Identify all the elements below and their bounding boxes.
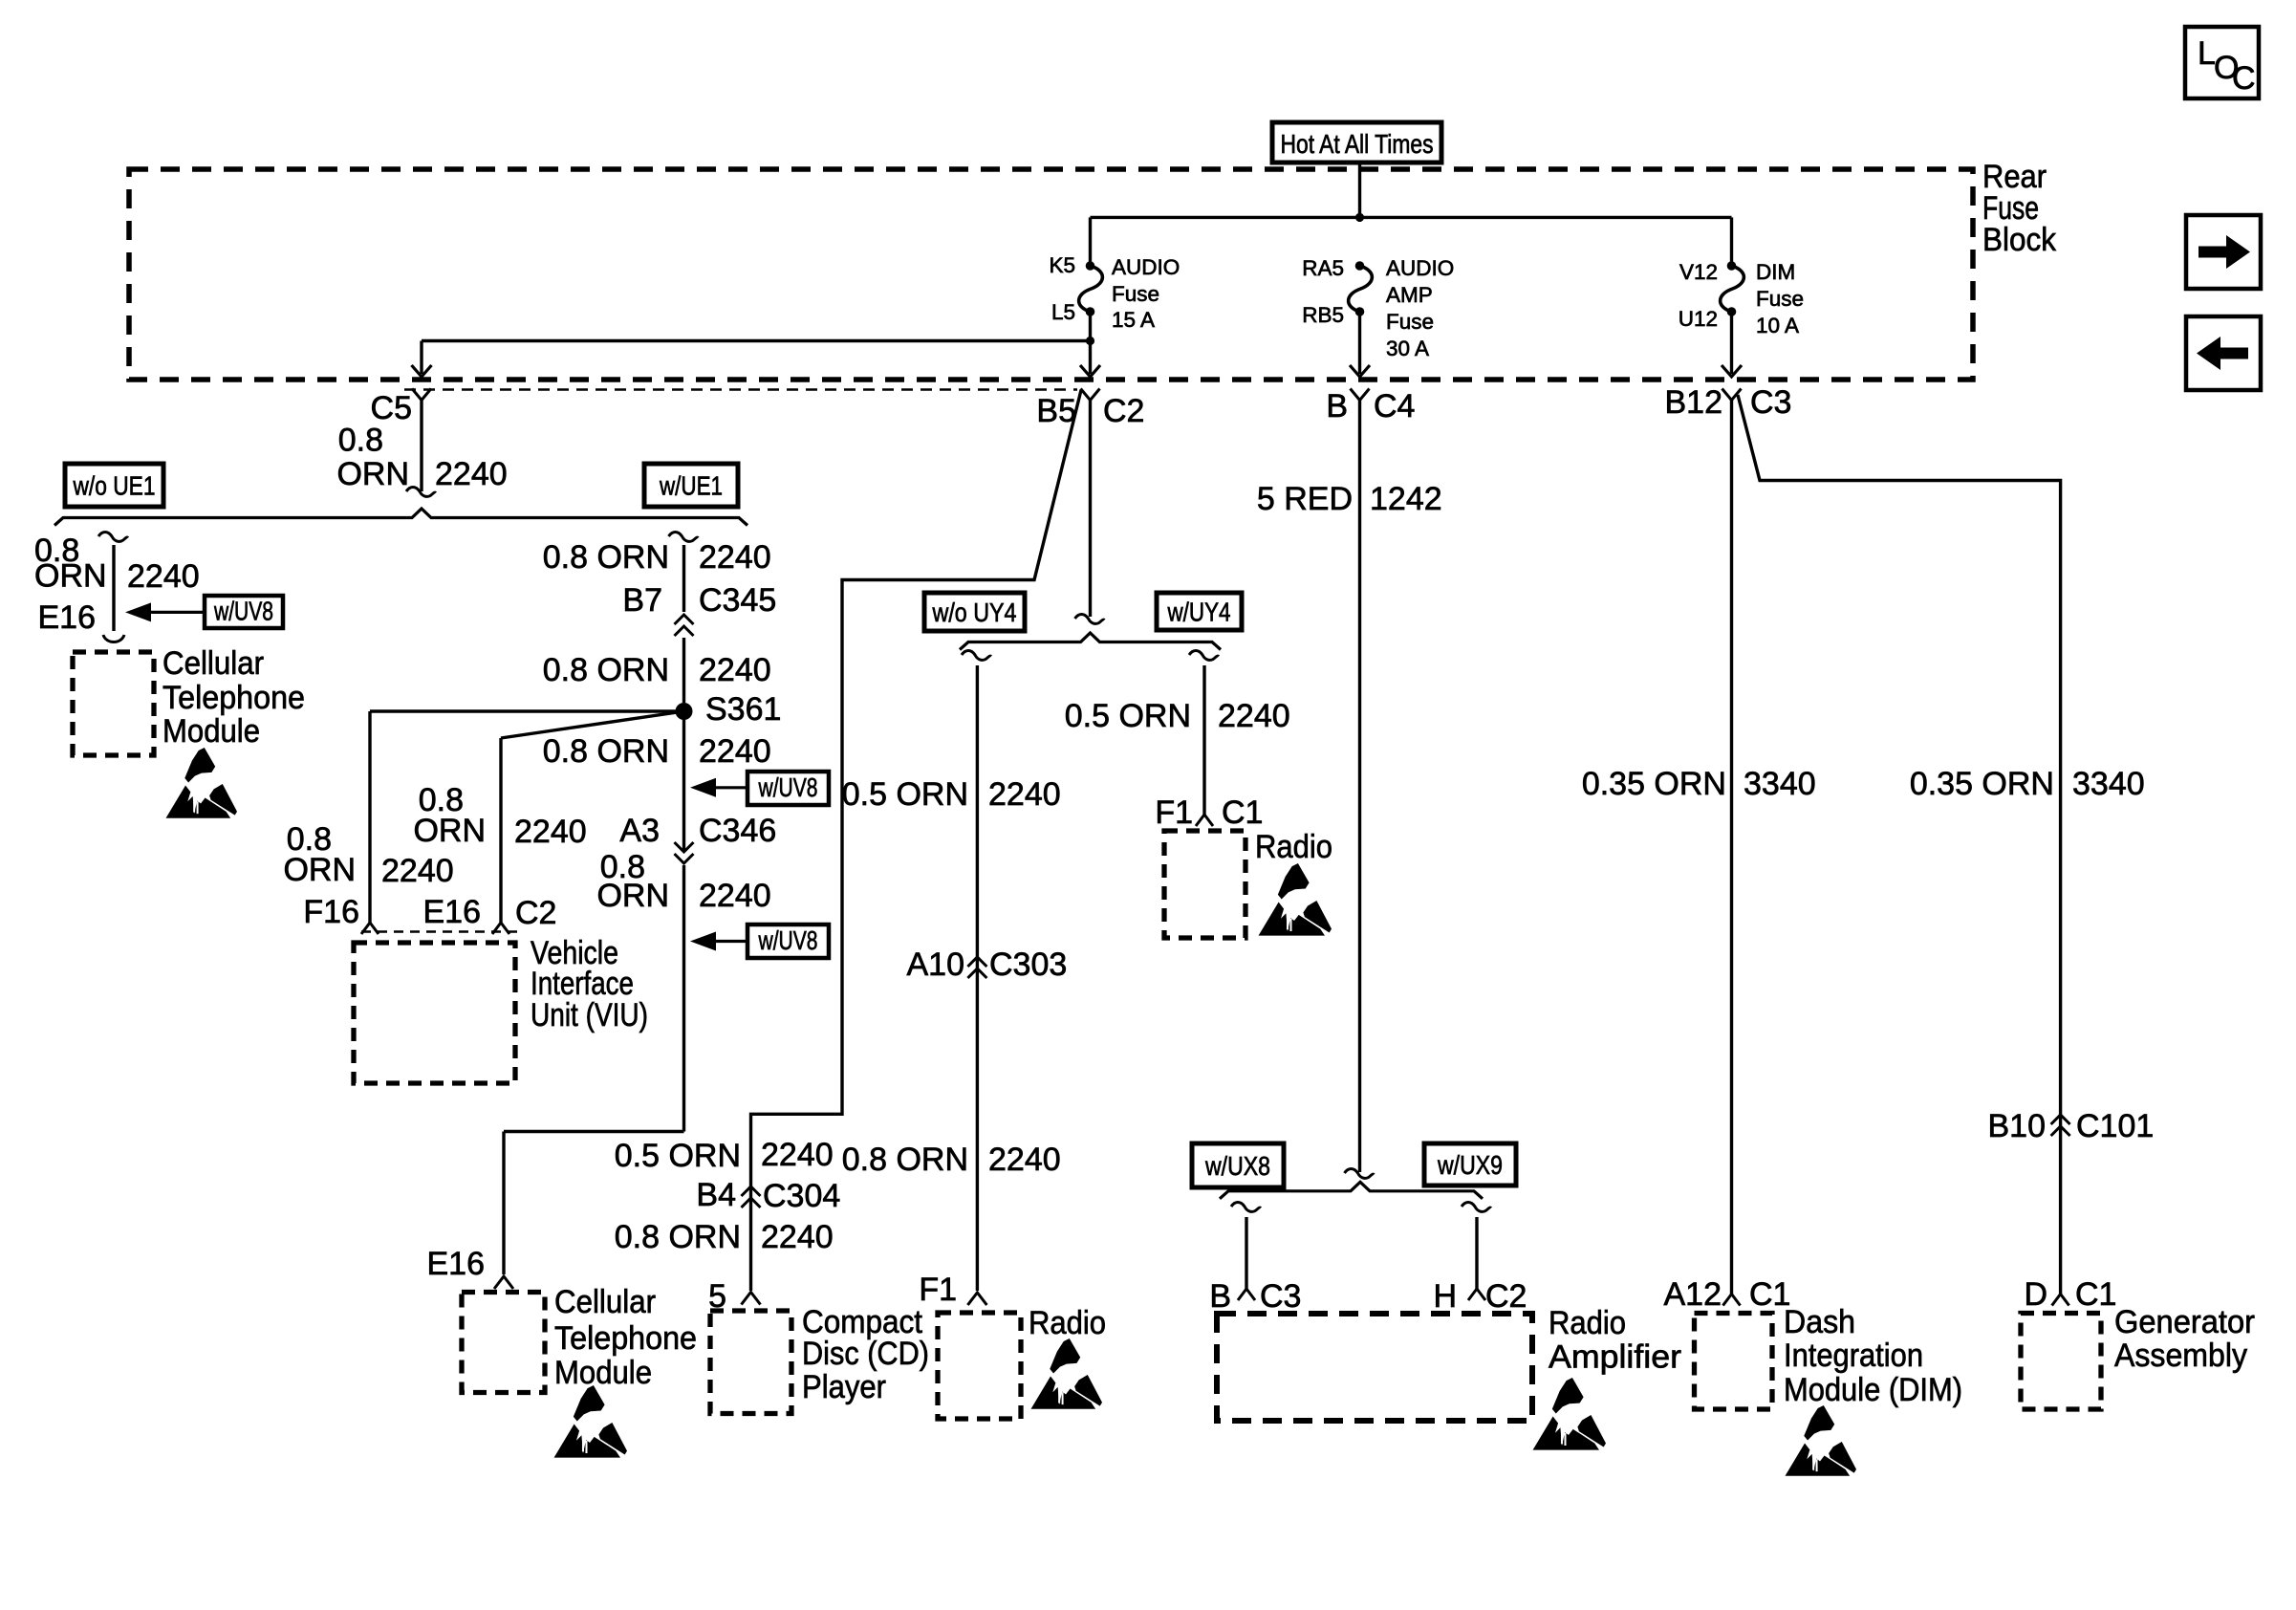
svg-text:Module: Module [554, 1355, 652, 1391]
svg-text:D: D [2024, 1276, 2047, 1313]
option arrow w/UV8 [125, 602, 151, 621]
svg-text:L5: L5 [1051, 300, 1075, 324]
component: Cellular Telephone Module (w/o UE1) [73, 652, 154, 755]
svg-text:C2: C2 [1485, 1278, 1527, 1315]
svg-text:B: B [1209, 1278, 1231, 1315]
component: Cellular Telephone Module (bottom) [462, 1293, 545, 1393]
svg-text:30 A: 30 A [1386, 337, 1429, 360]
junction: L5/C5 tap [1086, 337, 1094, 345]
LOC legend box [2185, 27, 2259, 98]
svg-text:ORN: ORN [413, 813, 486, 849]
svg-text:H: H [1433, 1278, 1457, 1315]
wire: B5 down to UY4 split [1089, 401, 1092, 618]
wire: w/UX9 drop [1462, 1203, 1491, 1212]
connector strip VIU (thin dashed) [361, 930, 524, 932]
wire: B5 to CD player [751, 390, 1082, 1291]
wire: L5 to junction and B5 arrow [1089, 312, 1092, 374]
fuse: AUDIO AMP Fuse 30 A (RA5/RB5) [1355, 261, 1365, 271]
svg-text:2240: 2240 [699, 878, 771, 914]
svg-text:10 A: 10 A [1756, 314, 1799, 337]
svg-text:Amplifier: Amplifier [1549, 1339, 1681, 1376]
svg-text:AUDIO: AUDIO [1386, 256, 1454, 280]
option arrow w/UV8 (2) [690, 778, 716, 797]
svg-text:Telephone: Telephone [162, 680, 305, 716]
ESD symbol (radio bottom) [1031, 1338, 1102, 1409]
svg-text:E16: E16 [38, 599, 97, 636]
option flag w/UX9 [1424, 1143, 1516, 1186]
svg-text:2240: 2240 [1218, 698, 1290, 734]
svg-text:C2: C2 [515, 895, 556, 931]
wire: E16 drop [499, 738, 502, 923]
svg-text:w/UV8: w/UV8 [758, 772, 818, 802]
svg-text:C3: C3 [1260, 1278, 1301, 1315]
svg-text:B5: B5 [1036, 393, 1076, 429]
svg-text:0.8 ORN: 0.8 ORN [543, 539, 669, 576]
svg-text:A12: A12 [1664, 1276, 1722, 1313]
node: Hot At All Times feed [1272, 122, 1441, 163]
wire: drop to C5 arrow [420, 341, 422, 375]
connector C5 [412, 389, 431, 401]
svg-text:w/UY4: w/UY4 [1167, 597, 1231, 626]
svg-text:Radio: Radio [1029, 1305, 1106, 1341]
svg-text:Radio: Radio [1549, 1305, 1626, 1341]
wire: w/o UE1 drop [98, 533, 128, 542]
svg-text:RA5: RA5 [1302, 256, 1344, 280]
svg-text:0.8 ORN: 0.8 ORN [842, 1142, 968, 1178]
ESD symbol (radio upper) [1259, 863, 1332, 936]
wire: B12 down to DIM [1730, 401, 1733, 1295]
svg-text:U12: U12 [1679, 307, 1718, 331]
svg-text:w/UX8: w/UX8 [1204, 1151, 1270, 1181]
option flag w/o UE1 [65, 464, 163, 507]
svg-text:AMP: AMP [1386, 283, 1433, 307]
svg-text:B12: B12 [1665, 384, 1723, 421]
svg-text:Fuse: Fuse [1386, 310, 1434, 334]
split brace w/o UE1 vs w/UE1 [54, 509, 747, 526]
svg-text:Disc (CD): Disc (CD) [802, 1336, 929, 1372]
svg-text:3340: 3340 [2072, 766, 2145, 802]
svg-text:Fuse: Fuse [1112, 282, 1159, 306]
svg-text:Generator: Generator [2114, 1304, 2255, 1340]
svg-text:0.8: 0.8 [338, 423, 383, 459]
svg-text:0.35 ORN: 0.35 ORN [1582, 766, 1726, 802]
svg-text:2240: 2240 [435, 456, 508, 492]
svg-text:0.35 ORN: 0.35 ORN [1910, 766, 2054, 802]
wire: S361 diagonal to E16 [501, 711, 684, 738]
svg-text:1242: 1242 [1370, 481, 1442, 517]
svg-text:B: B [1326, 388, 1348, 424]
split brace w/o UY4 vs w/UY4 [960, 633, 1221, 650]
svg-text:B7: B7 [622, 582, 662, 619]
fuse: AUDIO Fuse 15 A (K5/L5) [1086, 261, 1095, 271]
svg-text:AUDIO: AUDIO [1112, 255, 1180, 279]
svg-text:C101: C101 [2076, 1108, 2154, 1144]
svg-text:Telephone: Telephone [554, 1320, 697, 1357]
option flag w/o UY4 [924, 593, 1025, 631]
svg-text:0.8 ORN: 0.8 ORN [615, 1219, 741, 1255]
svg-text:2240: 2240 [699, 539, 771, 576]
svg-text:2240: 2240 [699, 733, 771, 770]
svg-text:Fuse: Fuse [1756, 287, 1804, 311]
svg-text:w/o UE1: w/o UE1 [73, 470, 156, 500]
ESD symbol (radio amplifier) [1533, 1378, 1606, 1450]
wire: C5 down to split [420, 401, 422, 492]
svg-text:15 A: 15 A [1112, 308, 1155, 332]
svg-text:Module: Module [162, 713, 260, 750]
option flag w/UY4 [1157, 593, 1242, 630]
svg-text:RB5: RB5 [1302, 303, 1344, 327]
svg-text:2240: 2240 [988, 1142, 1061, 1178]
wire: w/UY4 drop [1189, 651, 1219, 661]
svg-text:Block: Block [1982, 222, 2057, 258]
wire: bus across fuse block [1091, 216, 1732, 219]
connector B12 / C3 [1722, 389, 1742, 401]
svg-text:Integration: Integration [1784, 1338, 1923, 1374]
connector B5 / C2 [1081, 389, 1100, 401]
wire: w/UE1 drop [669, 533, 699, 542]
svg-text:2240: 2240 [761, 1219, 834, 1255]
svg-text:C1: C1 [2075, 1276, 2116, 1313]
svg-text:ORN: ORN [283, 852, 356, 888]
svg-text:C4: C4 [1374, 388, 1415, 424]
wire: B down to UX split [1358, 401, 1361, 1173]
fuse: DIM Fuse 10 A (V12/U12) [1727, 261, 1737, 271]
svg-text:Assembly: Assembly [2114, 1338, 2247, 1374]
ESD symbol (DIM) [1786, 1405, 1856, 1476]
option arrow w/UV8 (3) [690, 932, 716, 951]
svg-text:2240: 2240 [699, 652, 771, 688]
svg-text:Unit (VIU): Unit (VIU) [531, 997, 648, 1033]
component: Radio (upper) [1164, 831, 1245, 938]
component: Radio Amplifier [1217, 1314, 1532, 1421]
svg-text:DIM: DIM [1756, 260, 1795, 284]
component: Radio (bottom) [938, 1313, 1021, 1419]
svg-text:E16: E16 [423, 894, 482, 930]
right arrow nav box [2186, 215, 2261, 289]
svg-text:C5: C5 [371, 390, 412, 426]
svg-text:C304: C304 [763, 1178, 840, 1214]
svg-text:3340: 3340 [1744, 766, 1816, 802]
svg-text:w/UV8: w/UV8 [758, 925, 818, 955]
Rear Fuse Block (dashed enclosure) [129, 169, 1973, 380]
connector strip (thin dashed) [404, 388, 1077, 390]
wire: F16 drop [368, 711, 371, 923]
svg-text:C303: C303 [989, 946, 1067, 983]
wire: B12 tap to generator [1738, 395, 2061, 1295]
svg-text:Hot At All Times: Hot At All Times [1281, 129, 1434, 159]
svg-text:ORN: ORN [596, 878, 669, 914]
svg-text:Dash: Dash [1784, 1304, 1855, 1340]
svg-text:ORN: ORN [34, 558, 107, 595]
wire: w/o UY4 drop [962, 651, 991, 661]
svg-text:B10: B10 [1988, 1108, 2047, 1144]
svg-text:A10: A10 [907, 946, 965, 983]
svg-text:C3: C3 [1750, 384, 1791, 421]
connector B / C4 [1351, 389, 1370, 401]
ESD symbol (bottom cellular) [554, 1385, 627, 1458]
svg-text:2240: 2240 [988, 776, 1061, 813]
svg-text:0.5 ORN: 0.5 ORN [1065, 698, 1191, 734]
svg-text:F1: F1 [1155, 794, 1193, 831]
wire: jog to E16 (cell module) [504, 1130, 684, 1133]
svg-text:Module (DIM): Module (DIM) [1784, 1372, 1962, 1408]
svg-text:F1: F1 [919, 1272, 957, 1308]
svg-text:C2: C2 [1103, 393, 1144, 429]
svg-text:ORN: ORN [336, 456, 409, 492]
svg-text:w/UV8: w/UV8 [213, 596, 273, 625]
wire: w/UX8 drop [1231, 1203, 1261, 1212]
wire: RB5 to B arrow [1358, 312, 1361, 374]
svg-text:F16: F16 [303, 894, 359, 930]
component: Generator Assembly [2021, 1314, 2101, 1410]
svg-text:0.5 ORN: 0.5 ORN [615, 1138, 741, 1174]
svg-text:S361: S361 [705, 691, 781, 728]
option flag w/UX8 [1192, 1143, 1284, 1187]
svg-text:2240: 2240 [127, 558, 200, 595]
svg-text:2240: 2240 [514, 814, 587, 850]
wire: S361 to F16 [370, 709, 684, 712]
svg-text:K5: K5 [1049, 253, 1075, 277]
svg-text:Player: Player [802, 1369, 886, 1405]
svg-text:w/UX9: w/UX9 [1437, 1150, 1503, 1180]
svg-text:2240: 2240 [381, 853, 454, 889]
svg-text:V12: V12 [1679, 260, 1718, 284]
svg-text:C346: C346 [699, 813, 776, 849]
option flag w/UE1 [644, 464, 738, 507]
wire: Hot At All Times down to splice [1358, 163, 1361, 222]
svg-text:w/UE1: w/UE1 [659, 470, 723, 500]
svg-text:w/o UY4: w/o UY4 [932, 598, 1017, 627]
svg-text:Cellular: Cellular [554, 1284, 656, 1320]
svg-text:B4: B4 [696, 1177, 736, 1213]
svg-text:C345: C345 [699, 582, 776, 619]
split brace w/UX8 vs w/UX9 [1220, 1182, 1483, 1199]
junction at bus [1355, 213, 1364, 222]
wire end hook [103, 635, 124, 642]
svg-text:A3: A3 [619, 813, 660, 849]
svg-text:0.8 ORN: 0.8 ORN [543, 733, 669, 770]
svg-text:E16: E16 [427, 1246, 486, 1282]
component: Vehicle Interface Unit (VIU) [354, 943, 515, 1083]
svg-text:Radio: Radio [1255, 829, 1332, 865]
component: Compact Disc (CD) Player [710, 1311, 791, 1414]
wire: drop to DIM fuse [1730, 217, 1733, 263]
svg-text:C: C [2232, 60, 2256, 97]
svg-text:2240: 2240 [761, 1137, 834, 1173]
wire: U12 to B12 arrow [1730, 312, 1733, 374]
svg-text:C1: C1 [1222, 794, 1263, 831]
svg-text:0.8 ORN: 0.8 ORN [543, 652, 669, 688]
wire: tap across to C5 [422, 339, 1091, 342]
svg-text:5 RED: 5 RED [1257, 481, 1353, 517]
left arrow nav box [2186, 316, 2261, 390]
splice S361 [676, 703, 693, 720]
wire: drop to AUDIO fuse [1089, 217, 1092, 263]
svg-text:0.5 ORN: 0.5 ORN [842, 776, 968, 813]
component: Dash Integration Module (DIM) [1695, 1314, 1773, 1410]
svg-text:Cellular: Cellular [162, 645, 264, 682]
ESD symbol (cellular module) [166, 748, 237, 818]
